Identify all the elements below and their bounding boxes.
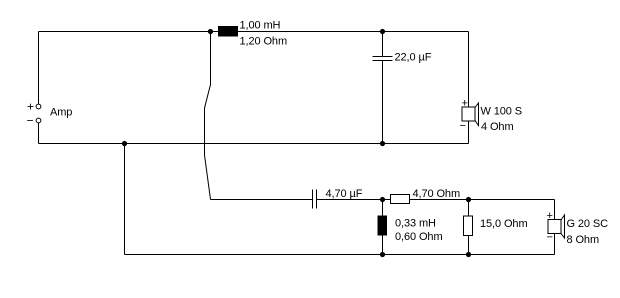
- capacitor C1 22uF bottom plate: [373, 60, 393, 62]
- speaker W 100 S cone: [475, 103, 479, 126]
- wire bottom horizontal of top loop: [39, 143, 469, 145]
- svg-text:−: −: [460, 120, 466, 132]
- capacitor C1 22uF top plate: [373, 56, 393, 58]
- junction node mid wire and L2 branch: [380, 197, 385, 202]
- wire left vertical from top wire down to amp + terminal: [38, 32, 40, 105]
- svg-text:G 20 SC: G 20 SC: [567, 218, 609, 230]
- speaker W 100 S box: [462, 107, 475, 121]
- wire speaker G 20 SC vertical lower: [554, 234, 556, 255]
- svg-text:4,70 Ohm: 4,70 Ohm: [413, 188, 461, 200]
- wire resistor R2 branch vertical: [468, 200, 470, 255]
- wire left vertical from amp - terminal down to bottom wire: [38, 123, 40, 144]
- wire from capacitor C2 to resistor R1: [317, 199, 391, 201]
- svg-text:Amp: Amp: [50, 107, 72, 119]
- wire right vertical through speaker W 100 S: [468, 32, 470, 144]
- svg-text:15,0 Ohm: 15,0 Ohm: [480, 218, 528, 230]
- svg-text:8 Ohm: 8 Ohm: [567, 234, 600, 246]
- svg-text:+: +: [462, 98, 468, 110]
- junction node bottom wire and C1 branch: [380, 141, 385, 146]
- junction node at top wire and curve branch: [208, 29, 213, 34]
- wire capacitor C1 branch lower segment: [382, 61, 384, 144]
- svg-text:1,00 mH: 1,00 mH: [240, 20, 281, 32]
- speaker G 20 SC box: [548, 220, 561, 234]
- svg-text:+: +: [547, 210, 553, 222]
- wire speaker G 20 SC vertical upper: [554, 200, 556, 220]
- resistor R2 body: [464, 216, 473, 236]
- wire lower-left vertical from node on bottom wire: [124, 144, 126, 255]
- capacitor C2 4.7uF left plate: [312, 190, 314, 209]
- wire capacitor C1 branch upper segment: [382, 32, 384, 57]
- svg-text:−: −: [547, 232, 553, 244]
- wire mid horizontal to capacitor C2: [211, 199, 313, 201]
- svg-text:0,33 mH: 0,33 mH: [395, 218, 436, 230]
- junction node at top wire and C1 branch: [380, 29, 385, 34]
- capacitor C2 4.7uF right plate: [316, 190, 318, 209]
- inductor L2 body (filled): [378, 216, 388, 236]
- svg-text:1,20 Ohm: 1,20 Ohm: [240, 36, 288, 48]
- svg-text:+: +: [27, 100, 34, 114]
- wire curved segment from node at top wire down to low-pass section: [205, 32, 211, 200]
- resistor R1 body: [391, 195, 410, 204]
- svg-text:W 100 S: W 100 S: [481, 106, 523, 118]
- junction node mid wire and R2 branch: [466, 197, 471, 202]
- svg-text:22,0 µF: 22,0 µF: [395, 52, 432, 64]
- junction node bottom wire and L2 branch: [380, 252, 385, 257]
- speaker G 20 SC cone: [561, 215, 565, 238]
- amp + terminal circle: [36, 104, 41, 109]
- svg-text:4,70 µF: 4,70 µF: [326, 188, 363, 200]
- amp - terminal circle: [36, 118, 41, 123]
- junction node bottom wire and lower loop branch: [122, 141, 127, 146]
- wire top horizontal from amp + to tweeter branch: [39, 31, 469, 33]
- wire bottom horizontal of lower loop: [125, 254, 555, 256]
- wire from resistor R1 to speaker G 20 SC branch: [410, 199, 555, 201]
- wire inductor L2 branch vertical: [382, 200, 384, 255]
- svg-text:4 Ohm: 4 Ohm: [481, 121, 514, 133]
- inductor L1 body (filled): [218, 26, 238, 37]
- svg-text:0,60 Ohm: 0,60 Ohm: [395, 231, 443, 243]
- svg-text:−: −: [27, 114, 34, 128]
- junction node bottom wire and R2 branch: [466, 252, 471, 257]
